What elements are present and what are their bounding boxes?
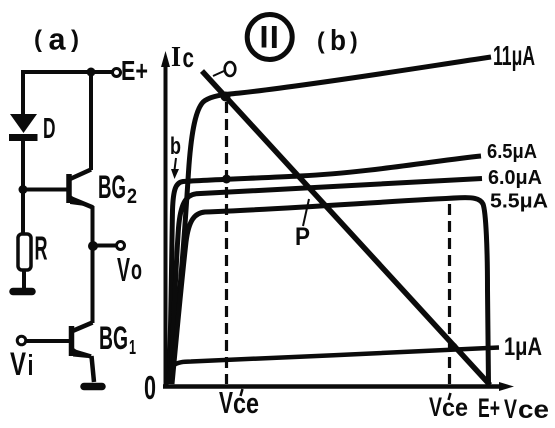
svg-text:ce: ce bbox=[233, 388, 259, 420]
ground under BG1 bbox=[84, 383, 102, 391]
svg-text:ce: ce bbox=[442, 394, 468, 422]
svg-text:2: 2 bbox=[127, 185, 137, 208]
svg-text:o: o bbox=[131, 254, 142, 285]
svg-text:P: P bbox=[295, 223, 310, 251]
curve 6.5uA bbox=[169, 156, 481, 384]
svg-text:(: ( bbox=[317, 28, 325, 54]
wire diode to junction to resistor bbox=[21, 140, 25, 234]
svg-text:6.5μA: 6.5μA bbox=[487, 141, 537, 163]
curve 11uA bbox=[169, 57, 492, 383]
svg-text:b: b bbox=[330, 25, 346, 57]
svg-text:V: V bbox=[10, 346, 26, 382]
dashed line Vce' left bbox=[225, 102, 228, 384]
svg-text:i: i bbox=[28, 350, 34, 382]
svg-text:E+: E+ bbox=[478, 393, 500, 423]
node Vo bbox=[88, 241, 98, 251]
svg-text:11μA: 11μA bbox=[493, 40, 535, 71]
diode D bbox=[10, 114, 37, 133]
figure number circle 11 bbox=[247, 15, 292, 60]
wire left drop to diode bbox=[21, 70, 25, 115]
node dash x 6.5uA bbox=[222, 175, 231, 184]
svg-text:a: a bbox=[49, 22, 67, 57]
curve 6.0uA bbox=[171, 179, 483, 385]
svg-text:V: V bbox=[219, 385, 233, 420]
ground under R bbox=[13, 288, 32, 296]
svg-text:0: 0 bbox=[144, 370, 156, 407]
node base junction bbox=[19, 185, 28, 194]
svg-text:D: D bbox=[43, 113, 56, 145]
marker o bbox=[225, 62, 236, 76]
wire base of BG2 bbox=[23, 188, 67, 192]
wire top rail bbox=[23, 70, 112, 74]
svg-text:BG: BG bbox=[98, 169, 126, 205]
svg-text:): ) bbox=[71, 26, 79, 53]
node load line x 11uA bbox=[221, 92, 231, 102]
svg-text:V: V bbox=[504, 394, 517, 424]
svg-text:V: V bbox=[429, 392, 442, 422]
svg-text:6.0μA: 6.0μA bbox=[488, 167, 542, 189]
node top junction bbox=[87, 68, 96, 77]
terminal Vi bbox=[17, 336, 26, 345]
curve 1uA bbox=[166, 348, 499, 386]
transistor BG1 bbox=[72, 323, 93, 359]
wire Vi to BG1 base bbox=[26, 339, 69, 343]
svg-text:1μA: 1μA bbox=[504, 333, 542, 361]
svg-text:(: ( bbox=[34, 26, 42, 53]
wire Vo stub bbox=[93, 244, 116, 248]
x axis Vce bbox=[163, 384, 502, 389]
curve 5.5uA bbox=[172, 198, 489, 384]
svg-text:R: R bbox=[35, 230, 48, 267]
svg-text:I: I bbox=[171, 41, 181, 73]
transistor BG2 bbox=[69, 170, 93, 208]
svg-text:ce: ce bbox=[518, 396, 549, 424]
svg-text:): ) bbox=[350, 28, 358, 54]
wire collector BG2 to rail bbox=[89, 72, 93, 170]
svg-text:5.5μA: 5.5μA bbox=[490, 190, 548, 213]
terminal Vo bbox=[117, 242, 125, 250]
terminal E+ bbox=[113, 69, 121, 77]
wire emitter BG2 down to BG1 collector bbox=[91, 206, 95, 323]
svg-text:E+: E+ bbox=[121, 55, 148, 86]
resistor R bbox=[18, 234, 31, 270]
node load line x 1uA bbox=[449, 343, 458, 352]
load line bbox=[202, 71, 490, 385]
svg-text:1: 1 bbox=[129, 337, 136, 359]
svg-text:BG: BG bbox=[99, 320, 128, 356]
dashed line Vce' right bbox=[448, 204, 451, 384]
svg-text:b: b bbox=[170, 133, 181, 160]
svg-text:c: c bbox=[183, 42, 195, 73]
wire resistor to ground bbox=[22, 270, 26, 288]
wire emitter BG1 to ground bbox=[92, 356, 95, 382]
svg-text:V: V bbox=[117, 251, 130, 288]
y axis Ic bbox=[164, 64, 168, 387]
